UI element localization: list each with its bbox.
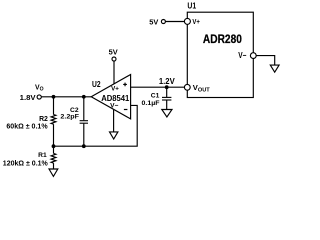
svg-text:ADR280: ADR280 [203, 32, 242, 46]
op-amp V- supply wire [113, 110, 115, 132]
terminal 5V U1 [161, 20, 165, 24]
svg-text:U1: U1 [187, 1, 196, 11]
svg-text:R1: R1 [38, 152, 47, 159]
svg-text:U2: U2 [92, 80, 101, 89]
ground U1 V- [270, 65, 279, 72]
svg-text:VO: VO [35, 85, 44, 93]
terminal 5V op-amp [112, 57, 116, 61]
node 1.2V / C1 junction [165, 85, 169, 89]
svg-text:2.2pF: 2.2pF [60, 113, 79, 120]
svg-text:V+: V+ [192, 17, 200, 26]
svg-text:V−: V− [110, 102, 118, 109]
node R2/R1 feedback junction [52, 144, 56, 148]
capacitor C2 bottom lead [83, 124, 85, 147]
ground op-amp V- [110, 132, 118, 139]
op-amp 5V supply wire [113, 61, 115, 84]
wire op-amp +input to VOUT [131, 86, 185, 88]
capacitor C1 [162, 96, 171, 98]
wire R1 to ground [53, 163, 55, 169]
capacitor C2 top lead [83, 97, 85, 121]
svg-text:60kΩ ± 0.1%: 60kΩ ± 0.1% [6, 124, 48, 131]
capacitor C1 bottom lead [166, 100, 168, 109]
svg-text:1.8V: 1.8V [20, 93, 36, 102]
ground R1 [49, 169, 58, 176]
terminal VO 1.8V [37, 95, 41, 99]
wire R2 top stub [53, 97, 55, 115]
IC U1 ADR280 box [187, 12, 253, 97]
pin V- U1 [250, 53, 256, 59]
svg-text:V+: V+ [111, 86, 119, 93]
wire 5V to V+ [166, 21, 185, 23]
wire R2 to node [53, 124, 55, 146]
resistor R1 [51, 153, 56, 163]
svg-text:R2: R2 [39, 116, 48, 123]
ground C1 [162, 110, 172, 118]
op-amp -input symbol [124, 109, 128, 110]
svg-text:V−: V− [238, 51, 246, 60]
wire VO to op-amp [41, 96, 91, 98]
node C2/feedback junction [82, 144, 86, 148]
node VO/C2 junction [82, 95, 86, 99]
wire feedback from R2/R1 node to inverting input [54, 105, 138, 146]
wire V- to ground [256, 56, 275, 66]
svg-text:120kΩ ± 0.1%: 120kΩ ± 0.1% [3, 161, 49, 168]
capacitor C1 top lead [166, 87, 168, 97]
pin V+ U1 [184, 18, 190, 24]
svg-text:C1: C1 [151, 93, 160, 100]
svg-text:1.2V: 1.2V [159, 77, 176, 86]
resistor R2 [51, 115, 56, 125]
svg-text:5V: 5V [149, 17, 158, 26]
capacitor C2 [80, 120, 88, 122]
pin VOUT U1 [184, 84, 190, 90]
node VO/R2 junction [52, 95, 56, 99]
svg-text:5V: 5V [109, 47, 118, 56]
svg-text:0.1µF: 0.1µF [142, 100, 160, 107]
op-amp +input symbol [123, 83, 127, 87]
wire R1 top stub [53, 146, 55, 153]
op-amp U2 triangle [91, 75, 130, 119]
